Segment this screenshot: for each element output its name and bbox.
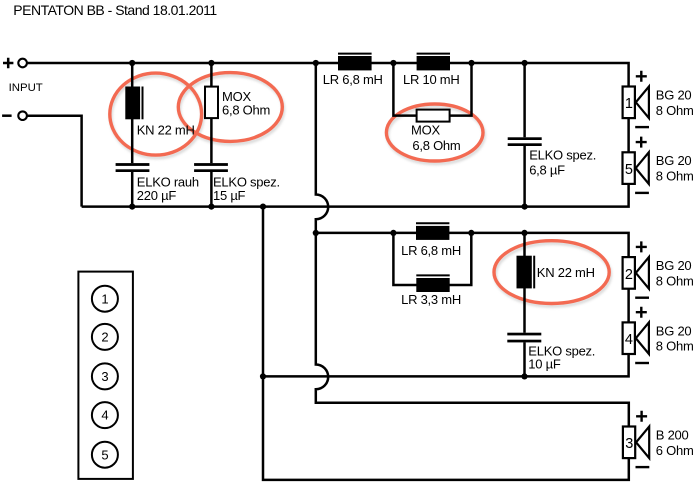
svg-text:2: 2 [625,267,633,283]
svg-text:1: 1 [625,96,633,112]
svg-text:BG 20: BG 20 [656,258,692,273]
svg-text:6,8 Ohm: 6,8 Ohm [222,102,270,117]
svg-text:LR 6,8 mH: LR 6,8 mH [323,72,383,87]
svg-text:6 Ohm: 6 Ohm [656,443,694,458]
svg-text:5: 5 [625,162,633,178]
svg-text:10 µF: 10 µF [528,357,561,372]
svg-text:2: 2 [101,330,108,345]
svg-text:5: 5 [101,447,108,462]
svg-text:MOX: MOX [411,123,440,138]
svg-text:BG 20: BG 20 [656,323,692,338]
svg-text:3: 3 [101,369,108,384]
svg-text:4: 4 [625,332,633,348]
svg-text:KN 22 mH: KN 22 mH [137,123,195,138]
svg-text:8 Ohm: 8 Ohm [656,169,694,184]
svg-text:BG 20: BG 20 [656,87,692,102]
svg-text:PENTATON BB - Stand 18.01.2011: PENTATON BB - Stand 18.01.2011 [13,2,217,18]
svg-text:6,8 Ohm: 6,8 Ohm [412,138,460,153]
svg-text:6,8 µF: 6,8 µF [529,162,565,177]
svg-text:B 200: B 200 [656,427,689,442]
svg-text:LR 6,8 mH: LR 6,8 mH [401,243,461,258]
svg-text:ELKO spez.: ELKO spez. [529,148,596,163]
svg-text:4: 4 [101,408,108,423]
svg-text:BG 20: BG 20 [656,153,692,168]
svg-text:8 Ohm: 8 Ohm [656,103,694,118]
svg-text:KN 22 mH: KN 22 mH [537,265,595,280]
svg-text:3: 3 [625,436,633,452]
svg-text:LR 3,3 mH: LR 3,3 mH [401,292,461,307]
svg-text:INPUT: INPUT [9,82,43,94]
svg-text:8 Ohm: 8 Ohm [656,273,694,288]
svg-text:1: 1 [101,291,108,306]
svg-text:15 µF: 15 µF [213,188,246,203]
svg-text:8 Ohm: 8 Ohm [656,339,694,354]
svg-text:LR 10 mH: LR 10 mH [403,72,460,87]
svg-text:220 µF: 220 µF [137,188,177,203]
